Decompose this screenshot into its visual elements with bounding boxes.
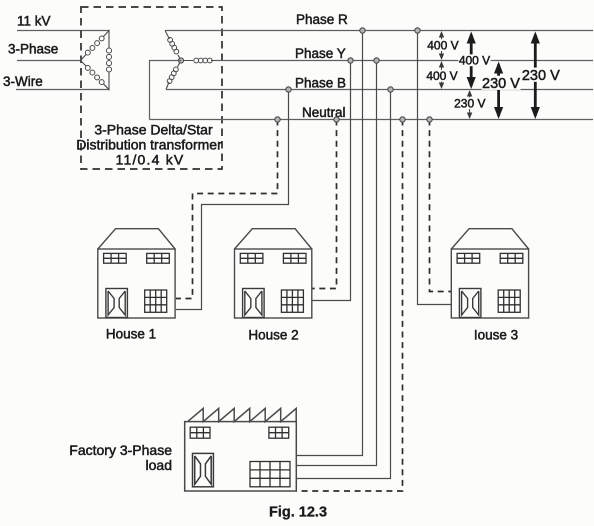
- delta primary winding triangle: [80, 31, 109, 90]
- label 230 V (B-N): [454, 97, 486, 109]
- wire feeder line 2: [17, 60, 80, 62]
- wire house 2 neutral drop (dashed): [313, 120, 337, 289]
- svg-text:load: load: [146, 457, 172, 473]
- svg-text:11/0.4 kV: 11/0.4 kV: [116, 152, 185, 168]
- svg-text:3-Wire: 3-Wire: [3, 74, 43, 89]
- label 400 V (R-Y): [427, 39, 459, 51]
- svg-text:House 1: House 1: [106, 327, 156, 342]
- wire factory neutral drop (dashed): [296, 120, 402, 492]
- delta coil winding 1 (top side): [85, 36, 104, 55]
- arrow 400V between R and B (thick): [470, 35, 473, 87]
- svg-text:Phase B: Phase B: [295, 76, 346, 91]
- node phase B to factory: [388, 87, 393, 92]
- svg-text:3-Phase: 3-Phase: [8, 42, 58, 57]
- wire house 1 phase drop (solid): [176, 90, 289, 310]
- label 400 V (Y-B): [426, 70, 458, 82]
- wire Phase Y bus: [216, 60, 593, 62]
- node neutral to house 2: [334, 117, 339, 122]
- svg-text:400 V: 400 V: [426, 69, 457, 83]
- star coil winding Y (right branch): [194, 58, 212, 63]
- arrow 400V between Y and B: [441, 62, 443, 88]
- node phase Y to factory: [374, 58, 379, 63]
- node phase Y to house 2: [348, 58, 353, 63]
- node neutral to factory: [400, 117, 405, 122]
- svg-text:3-Phase Delta/Star: 3-Phase Delta/Star: [94, 122, 213, 138]
- wire feeder line 3: [16, 89, 109, 91]
- star coil winding B (bottom branch): [167, 67, 178, 84]
- delta coil winding 2 (right side): [106, 48, 111, 72]
- wire house 3 neutral drop (dashed): [430, 120, 452, 292]
- wire Neutral bus: [150, 119, 594, 121]
- svg-text:Distribution transformer: Distribution transformer: [76, 137, 222, 153]
- svg-text:Factory 3-Phase: Factory 3-Phase: [69, 442, 172, 458]
- house 1: [98, 229, 175, 318]
- transformer enclosure dashed box: [81, 7, 222, 169]
- arrow 230V between Y and N (thick): [497, 65, 500, 117]
- node neutral to house 3: [427, 117, 432, 122]
- svg-text:230 V: 230 V: [522, 68, 560, 84]
- arrow 230V between R and N (thick): [534, 35, 537, 117]
- wire neutral tap from star point: [150, 61, 182, 120]
- svg-text:Iouse 3: Iouse 3: [474, 328, 518, 343]
- wire 11kV feeder line 1: [17, 30, 109, 32]
- svg-text:House 2: House 2: [248, 328, 298, 343]
- label 400 V (R-B): [458, 54, 490, 66]
- svg-text:Phase Y: Phase Y: [295, 46, 346, 61]
- star coil winding R (top branch): [168, 38, 179, 54]
- wire house 2 phase drop (solid): [313, 61, 351, 301]
- svg-text:11 kV: 11 kV: [17, 14, 51, 29]
- svg-text:230 V: 230 V: [482, 76, 520, 92]
- svg-text:230 V: 230 V: [454, 97, 485, 111]
- svg-text:Phase R: Phase R: [296, 12, 348, 27]
- wire Phase B bus: [166, 89, 593, 91]
- node phase B to house 1: [286, 87, 291, 92]
- wire house 1 neutral drop (dashed): [176, 120, 278, 299]
- node neutral to house 1: [275, 117, 280, 122]
- label 230 V (R-N): [521, 68, 560, 82]
- wire factory phase R drop (solid): [296, 31, 362, 456]
- house 2: [235, 229, 312, 318]
- svg-text:400 V: 400 V: [459, 54, 490, 68]
- wire factory phase B drop (solid): [296, 90, 390, 479]
- arrow 400V between R and Y: [441, 32, 443, 59]
- star secondary winding branch lines: [165, 31, 216, 90]
- star neutral point node: [178, 58, 183, 63]
- factory building: [185, 408, 297, 491]
- wire house 3 phase drop (solid): [418, 31, 452, 305]
- arrow 230V between B and N: [469, 91, 471, 118]
- wire Phase R bus: [165, 30, 593, 32]
- svg-text:400 V: 400 V: [427, 38, 458, 52]
- house 3: [451, 229, 528, 318]
- node phase R to house 3: [415, 28, 420, 33]
- label 230 V (Y-N): [482, 76, 521, 90]
- svg-text:Fig. 12.3: Fig. 12.3: [269, 505, 327, 521]
- wire factory phase Y drop (solid): [296, 61, 376, 466]
- node phase R to factory: [360, 28, 365, 33]
- delta coil winding 3 (bottom side): [85, 65, 104, 84]
